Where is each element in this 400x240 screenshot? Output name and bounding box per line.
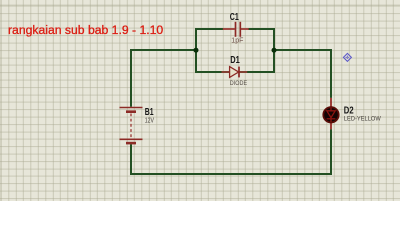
svg-text:LED-YELLOW: LED-YELLOW [344,116,381,123]
svg-text:1pF: 1pF [231,37,243,44]
svg-text:B1: B1 [145,106,154,118]
svg-text:12V: 12V [145,117,154,124]
svg-text:D1: D1 [230,54,240,66]
svg-text:rangkaian sub bab 1.9 - 1.10: rangkaian sub bab 1.9 - 1.10 [8,23,163,37]
svg-text:C1: C1 [230,11,239,23]
svg-text:DIODE: DIODE [230,80,248,87]
